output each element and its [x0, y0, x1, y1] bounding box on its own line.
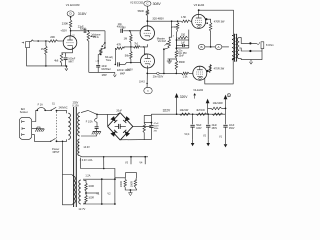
label 150 [181, 33, 186, 37]
wire heater V3 stub [130, 157, 132, 164]
wire bleeder top vertical [143, 115, 145, 123]
label 10n [118, 22, 123, 26]
svg-text:12.7V: 12.7V [78, 207, 85, 211]
wire right hum feed [115, 178, 125, 179]
power connector C (+308V feed) [144, 1, 151, 6]
wire V4 cathode loop to OT bottom [205, 59, 233, 84]
volume pot wiper arrow [90, 35, 96, 37]
capacitor C11 22uF 450V [206, 125, 210, 127]
wire 220n to V2b grid [119, 63, 140, 65]
wire grid stopper into V3 [190, 20, 192, 22]
svg-text:100R: 100R [119, 181, 123, 187]
resistor R13 220K [176, 22, 179, 30]
triode V2a ECC82 [140, 26, 154, 40]
junction rail bot a [101, 203, 103, 205]
junction hum centre [85, 192, 87, 194]
wire B+ rail [151, 113, 225, 115]
capacitor C2 22nF 630V coupling [84, 29, 86, 33]
loop top right hum [125, 173, 136, 179]
wire 10k10W right [222, 107, 226, 109]
svg-text:1uF: 1uF [181, 43, 186, 45]
power transformer T1 HT secondary [78, 113, 80, 136]
label 100V [196, 128, 202, 130]
junction screen rail [210, 46, 212, 48]
label 7k1 [134, 42, 139, 46]
wire tail rail [124, 47, 134, 48]
svg-text:20K: 20K [50, 35, 55, 39]
svg-text:MKP: MKP [102, 75, 107, 77]
label 10nF [101, 65, 107, 68]
label 2W [154, 130, 158, 132]
label 98V [122, 28, 127, 30]
wire 220K to tone node [176, 30, 177, 48]
resistor R16 680R lower [175, 61, 178, 70]
label V1 ECC83 [66, 3, 80, 7]
resistor R12 56k bootstrap [130, 52, 133, 60]
junction secondary tap 4ohm [249, 50, 251, 52]
resistor R3 20K grid stopper [49, 40, 58, 43]
resistor R23b 10k 10W [211, 107, 222, 110]
svg-text:8 Ohm: 8 Ohm [266, 43, 274, 47]
label S1 [52, 104, 56, 106]
svg-text:100R: 100R [88, 186, 94, 188]
junction HT fuse node [96, 114, 98, 116]
junction fuse right [44, 109, 46, 111]
wire V4 screen to resistor [207, 65, 210, 72]
speaker jack J2 [257, 42, 264, 49]
arrow feed to C node [206, 99, 210, 114]
svg-text:318V: 318V [78, 12, 87, 16]
label 20K [50, 35, 55, 39]
capacitor C4 10nF NFB [96, 65, 100, 67]
svg-text:V1 ECC83: V1 ECC83 [66, 3, 80, 7]
label Vol [158, 39, 166, 43]
connector circle D small [227, 94, 230, 98]
label 20uF [116, 109, 122, 112]
wire feed to master vol [169, 21, 171, 39]
wire grid stopper to V1 grid [58, 40, 64, 42]
junction heater twist b [103, 168, 105, 170]
arrow glyph after 320V [193, 93, 196, 99]
wire bleeder bottom [143, 133, 145, 140]
svg-text:Socket: Socket [20, 110, 28, 114]
label 4k6 [54, 58, 59, 62]
wire V2 heater drop [114, 179, 116, 204]
resistor R18 1.5K V3 grid stopper [181, 20, 190, 23]
resistor R27 100R right a [124, 179, 127, 187]
junction V2a grid node [129, 30, 131, 32]
resistor R11 tail 7k1 [134, 46, 141, 49]
wire filter cap 2 top [207, 114, 209, 124]
svg-text:V3 EL84: V3 EL84 [194, 3, 205, 7]
svg-text:470R 3W: 470R 3W [214, 67, 225, 71]
power connector D (+318V feed) [67, 11, 74, 16]
label 10nF stack [179, 55, 185, 57]
resistor R14 150R cathode [178, 36, 188, 39]
pin label 3 [173, 35, 175, 37]
label 308V [153, 2, 162, 6]
capacitor stack 1uF [183, 44, 185, 47]
junction V3 cathode pin [206, 22, 208, 24]
junction tone node [176, 47, 178, 49]
wire reservoir bottom [150, 128, 152, 140]
ground speaker return [250, 60, 253, 64]
label 630V [80, 29, 86, 31]
label Volume [92, 32, 101, 36]
svg-text:10k/1W: 10k/1W [180, 108, 189, 112]
label 10n 35V [178, 53, 187, 55]
power transformer T1 12.6V winding [79, 180, 81, 204]
wire secondary mid tap [239, 48, 262, 51]
svg-text:D: D [228, 94, 230, 97]
wire tail to V2b plate [140, 47, 146, 54]
label 400V [117, 25, 123, 29]
resistor R9 560R [146, 10, 149, 16]
wire reservoir tap [144, 121, 151, 123]
wire 10k10W left [208, 107, 211, 109]
NFB trimmer wiper arrow [101, 44, 104, 48]
bridge diode D4 [123, 130, 130, 137]
wire NFB ground rail [89, 71, 115, 73]
power transformer T1 6.3V winding [78, 139, 80, 156]
svg-text:47K: 47K [117, 43, 122, 47]
svg-text:100R: 100R [129, 181, 133, 187]
potentiometer VR1 volume 1M [87, 32, 90, 42]
input jack J1 [22, 42, 30, 48]
label 6.3V 1.8A [80, 159, 93, 162]
svg-text:470R 3W: 470R 3W [214, 20, 225, 24]
wire 56k top [130, 47, 132, 52]
wire hum bottom [84, 202, 87, 204]
wire bridge cap lead right [120, 125, 126, 127]
label 0.13A [72, 104, 79, 107]
output transformer T2 primary [232, 35, 234, 59]
label V3 heater [125, 161, 129, 164]
label IEC [21, 107, 25, 111]
label 63V/Rad [101, 69, 111, 71]
label 22n [178, 50, 183, 52]
bridge diode D3 [110, 130, 117, 137]
junction fuse left [36, 109, 38, 111]
svg-text:320-485V: 320-485V [152, 17, 164, 21]
master vol wiper arrow [164, 43, 168, 45]
wire grid leak top stub [45, 41, 47, 46]
label 1M b [124, 36, 128, 40]
svg-text:150: 150 [181, 33, 186, 37]
junction heater twist a [103, 156, 105, 158]
junction 220K top [177, 20, 179, 22]
ground bars tone network [0, 0, 1, 1]
chassis ground at HT cap [92, 131, 101, 134]
label 100V [127, 68, 133, 71]
resistor R20 470R 3W screen V4 [209, 65, 212, 73]
resistor R2 230K plate load [69, 20, 72, 29]
capacitor C12 22uF 450V [223, 125, 227, 127]
label MKP nfb [102, 75, 107, 77]
wire fuse to switch [45, 109, 51, 111]
capacitor C7 line cap [95, 127, 99, 129]
wire heater twist link [103, 157, 105, 169]
junction NFB vertical b [104, 47, 105, 48]
wire OT primary bottom lead [232, 59, 233, 60]
wire line cap to hatch [96, 128, 98, 131]
wire master pot bottom [164, 48, 169, 74]
resistor R21 10k 1W [180, 113, 191, 116]
label V4-EL84 [193, 88, 203, 92]
label 20n 630V [153, 76, 164, 79]
wire 680R bottom [175, 70, 177, 74]
svg-text:MKP: MKP [120, 72, 126, 75]
label DPST [53, 150, 60, 154]
wire B plus to OT centre [197, 46, 199, 48]
label 100R rot a [119, 181, 123, 187]
label 14.3V [83, 146, 90, 149]
label 240VAC [59, 107, 68, 110]
junction V3 plate corner [198, 9, 200, 11]
label 318V [78, 12, 87, 16]
capacitor C1 cathode bypass [64, 58, 68, 60]
junction V4 grid leak [176, 73, 178, 75]
label F 1A [38, 104, 44, 107]
ground NFB network [113, 72, 116, 76]
junction rail node3 [207, 113, 209, 115]
label 100R a [88, 186, 94, 188]
svg-text:630V: 630V [80, 29, 86, 31]
resistor R4 cathode bias [60, 53, 63, 63]
svg-text:Vol 1M: Vol 1M [158, 39, 166, 43]
junction rail top a [101, 178, 103, 180]
label V3 4 [184, 133, 190, 136]
wire hum centre out [86, 192, 99, 194]
label F 1/2A [86, 120, 93, 123]
label NF-adj [105, 55, 113, 59]
label 47uF [154, 123, 160, 125]
wire filter cap 1 top [192, 114, 194, 124]
svg-text:V3,4: V3,4 [184, 133, 190, 136]
label 470R 3W b [214, 67, 225, 71]
wire 1M stub [130, 31, 131, 35]
label 1M A [93, 35, 99, 39]
wire coupling cap to volume top [86, 30, 105, 32]
label Master [157, 36, 165, 40]
svg-text:= 6.3V 1.8A: = 6.3V 1.8A [80, 159, 93, 162]
wire HT into bridge left [107, 114, 109, 126]
power connector c lower [144, 87, 152, 94]
label 560R [138, 9, 144, 13]
svg-text:450V: 450V [212, 128, 218, 130]
svg-text:1.5K: 1.5K [181, 15, 187, 19]
svg-text:680R: 680R [179, 61, 185, 64]
junction plate node [70, 30, 72, 32]
label 56k [125, 53, 130, 57]
triode V2b ECC82 cathodyne [141, 54, 155, 68]
wire HT secondary bottom [81, 134, 97, 136]
wire V3 cathode drop [188, 30, 190, 48]
svg-text:220K: 220K [171, 25, 177, 29]
fuse F1 1A mains [37, 108, 45, 111]
wire HT secondary top [81, 110, 108, 114]
wire filter cap 3 top [225, 114, 227, 124]
wire IEC earth [32, 127, 37, 129]
ground input stage [65, 66, 68, 70]
svg-text:100V: 100V [196, 128, 202, 130]
svg-text:450V: 450V [229, 128, 235, 130]
junction tail right [143, 46, 144, 47]
resistor R26 100R hum b [85, 195, 88, 203]
label 8 Ohm [266, 43, 274, 47]
junction NFB vertical a [104, 42, 106, 44]
junction right hum centre [130, 189, 132, 191]
IEC socket X1 [19, 117, 31, 139]
wire IEC live [32, 110, 38, 121]
capacitor C8 inside bridge [119, 124, 121, 129]
svg-text:14.3V: 14.3V [83, 146, 90, 149]
power connector B [198, 44, 205, 49]
svg-text:1M: 1M [41, 47, 45, 51]
junction tail at 1M [130, 46, 132, 48]
label 4k7/1W [196, 108, 205, 112]
wire bridge cap lead left [115, 125, 119, 127]
wire 470R V3 down to B rail [210, 31, 212, 47]
svg-text:100R: 100R [88, 198, 94, 200]
label 322V [163, 109, 171, 113]
wire input ground rail [27, 48, 67, 66]
resistor R15 220k upper [175, 50, 178, 58]
wire V1 cathode stub [62, 47, 73, 53]
junction NFB pot bottom [100, 54, 102, 56]
junction heater V3 tap [130, 156, 132, 158]
potentiometer VR2 NFB trim [100, 49, 103, 55]
arrow feed 320V [175, 93, 179, 114]
wire lower primary bottom lead [63, 175, 74, 205]
label Socket [20, 110, 28, 114]
label 500V [154, 126, 160, 128]
wire reservoir loop top [144, 114, 151, 116]
svg-text:+92V: +92V [60, 29, 67, 33]
svg-text:320V: 320V [180, 95, 188, 99]
chassis ground earth pin [35, 129, 44, 132]
wire 12.6V rail top [83, 178, 115, 180]
label 100R rot b [129, 181, 133, 187]
ground filter 1 [191, 140, 195, 146]
label 1uF stack [181, 43, 186, 45]
wire cathode cap bottom [65, 60, 67, 67]
ground filter 3 [224, 141, 228, 147]
junction feed master [171, 20, 173, 22]
wire cathode cap stub [65, 53, 67, 57]
junction input node b [45, 40, 47, 42]
label Tone [106, 58, 112, 62]
wire lower primary top lead [72, 175, 74, 177]
svg-text:1.2A: 1.2A [85, 175, 90, 178]
junction V3 screen [205, 18, 207, 20]
pin label 1a [72, 34, 75, 36]
svg-text:1M A: 1M A [93, 35, 99, 39]
wire HT to bridge top [108, 113, 121, 115]
power transformer T1 core [74, 107, 77, 207]
svg-text:560R: 560R [138, 9, 144, 13]
junction master pot bottom [163, 48, 165, 50]
resistor R22 4k7 1W [196, 113, 207, 116]
svg-text:308V: 308V [153, 2, 162, 6]
svg-text:20uF: 20uF [116, 109, 122, 112]
wire NFB vertical from top wire [101, 31, 105, 49]
switch S1a pole [51, 107, 57, 111]
svg-text:1.5k: 1.5k [183, 75, 189, 79]
wire primary lower feed [63, 141, 72, 174]
arrow feed to D node [224, 95, 228, 114]
bridge rectifier D1-D4 diamond [108, 113, 133, 140]
potentiometer VR3 master volume [168, 39, 171, 48]
wire NFB pot bottom to cap [98, 55, 101, 65]
ground filter 2 [206, 140, 210, 146]
wire earth link [37, 127, 40, 129]
junction heater V4 tap [144, 156, 146, 158]
wire heater V4 stub [144, 157, 146, 164]
junction 220n cap tap [115, 64, 117, 66]
wire bias ground rail [168, 58, 177, 60]
svg-text:4k7/1W: 4k7/1W [196, 108, 205, 112]
svg-text:63V/Rad: 63V/Rad [101, 69, 111, 71]
wire V2a cathode stub [144, 44, 147, 47]
wire cathode R bottom [61, 63, 63, 66]
junction master to grid wire [163, 73, 165, 75]
svg-text:322V: 322V [163, 109, 171, 113]
svg-text:F 1/2A: F 1/2A [86, 120, 93, 123]
label 230V [73, 102, 79, 105]
wire IEC neutral [32, 135, 51, 142]
wire secondary top tap to jack [239, 38, 257, 44]
label V1 psu [219, 136, 223, 139]
svg-text:B: B [201, 45, 203, 49]
resistor R8 47K [115, 47, 124, 50]
label 100uF [68, 58, 75, 61]
label 56uF [196, 125, 202, 127]
junction below connector D [70, 17, 71, 18]
junction ground rail at grid leak [45, 65, 47, 67]
junction primary lower feed [62, 141, 64, 143]
resistor R24 100k 2W bleeder [143, 124, 146, 133]
junction OT primary bottom [232, 58, 234, 60]
wire switch to primary top [57, 111, 67, 114]
output transformer T2 secondary [237, 38, 239, 59]
capacitor C10 56uF 100V [190, 125, 194, 127]
wire psu ground bus [120, 139, 151, 141]
wire rail down to reservoir [150, 114, 152, 125]
wire 47k feed vertical [114, 48, 116, 64]
svg-text:Tone: Tone [106, 58, 112, 62]
svg-text:230K: 230K [62, 21, 69, 25]
label 450V a [212, 128, 218, 130]
wire filter cap 3 bottom [225, 127, 227, 141]
junction input node a [37, 40, 39, 42]
wire hum centre tap [85, 191, 87, 195]
junction V2a plate node [147, 20, 149, 22]
svg-text:98V: 98V [122, 28, 127, 30]
label 100R b [88, 198, 94, 200]
junction rail bot b [114, 203, 116, 205]
wire V1 heater drop [101, 179, 103, 204]
wire plate node to output rail [147, 20, 181, 22]
junction 10k10W at D stem [225, 108, 227, 110]
svg-text:20n 630V: 20n 630V [153, 76, 164, 79]
svg-text:0.13A: 0.13A [72, 104, 79, 107]
svg-text:F 1A: F 1A [38, 104, 44, 107]
junction NFB cap top [98, 60, 99, 61]
pentode V3 EL84 [192, 14, 206, 28]
switch S1b pole [50, 138, 56, 142]
wire jack tip to grid network [30, 40, 49, 42]
